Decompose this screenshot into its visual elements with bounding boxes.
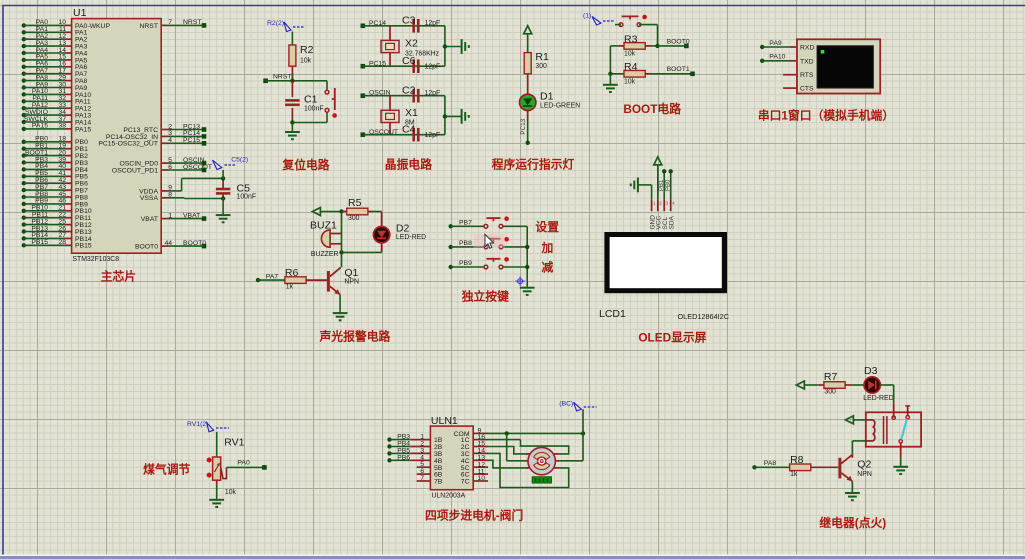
svg-text:PB8: PB8 xyxy=(459,240,472,247)
chip U1 pin 1 VBAT xyxy=(141,212,207,223)
node SDA wire PB0 xyxy=(666,169,673,199)
label minus xyxy=(541,260,553,274)
wire R5 junction down to Q1 collector xyxy=(341,212,343,268)
relay switch blade xyxy=(901,419,907,440)
svg-text:煤气调节: 煤气调节 xyxy=(143,463,190,477)
chip U1 pin 15 PA5 / PA5 with wire and node xyxy=(22,54,88,65)
ground below C5 xyxy=(216,199,231,223)
motor stepper body xyxy=(526,447,560,474)
wire D2 to collector junction xyxy=(339,243,381,255)
svg-text:STM32F103C8: STM32F103C8 xyxy=(72,256,119,263)
svg-text:声光报警电路: 声光报警电路 xyxy=(319,330,391,344)
button PB7 xyxy=(484,216,509,228)
svg-text:D3: D3 xyxy=(864,365,878,377)
svg-text:继电器(点火): 继电器(点火) xyxy=(819,516,886,530)
svg-text:4: 4 xyxy=(168,137,172,144)
svg-text:CTS: CTS xyxy=(800,86,814,93)
chip ULN1 pin 16 1C xyxy=(461,434,488,444)
RV1 adjust buttons xyxy=(207,458,212,478)
svg-text:PA15: PA15 xyxy=(32,123,48,130)
relay coil xyxy=(866,416,887,444)
chip U1 pin 20 BOOT1 / PB2 with wire and node xyxy=(22,149,88,160)
wire button PB8 to bus xyxy=(503,246,527,248)
chip U1 pin 18 PB0 / PB0 with wire and node xyxy=(22,136,88,147)
svg-text:R7: R7 xyxy=(824,371,838,383)
cursor highlight xyxy=(474,234,505,248)
ground below Q1 xyxy=(333,312,348,321)
svg-text:100nF: 100nF xyxy=(237,194,257,201)
chip ULN1 pin 11 6C xyxy=(461,468,488,478)
power arrow for R5 xyxy=(312,208,341,216)
wire 1C to motor right-top xyxy=(488,440,569,454)
svg-text:NRST: NRST xyxy=(139,23,158,30)
svg-text:PA0: PA0 xyxy=(237,460,250,467)
power arrow for OLED VCC xyxy=(654,157,662,199)
svg-text:RV1(2): RV1(2) xyxy=(187,421,208,428)
label main chip xyxy=(101,270,136,284)
transistor Q2 NPN xyxy=(838,455,871,482)
svg-text:LCD1: LCD1 xyxy=(599,308,626,320)
svg-text:300: 300 xyxy=(535,63,547,70)
svg-text:C5(2): C5(2) xyxy=(231,157,248,164)
svg-text:38: 38 xyxy=(58,123,66,130)
svg-text:VBAT: VBAT xyxy=(141,216,158,223)
chip U1 pin 25 PB12 / PB12 with wire and node xyxy=(22,218,92,229)
chip ULN1 pin 2 2B PB4 xyxy=(387,441,442,452)
LCD1 OLED body xyxy=(599,232,729,321)
chip U1 pin 12 PA2 / PA2 with wire and node xyxy=(22,33,88,44)
wire R2 to NRST node xyxy=(291,66,293,81)
svg-text:BUZZER: BUZZER xyxy=(311,251,339,258)
svg-text:10k: 10k xyxy=(300,58,312,65)
ground rotated bottom xyxy=(462,109,469,124)
label alarm circuit xyxy=(319,330,391,344)
svg-text:X2: X2 xyxy=(405,38,418,50)
wire R1 to D1 xyxy=(527,74,529,95)
wire relay common to ground xyxy=(900,443,902,466)
chip U1 pin 22 PB11 / PB11 with wire and node xyxy=(22,212,92,223)
transistor Q1 NPN xyxy=(327,267,359,295)
resistor R6 1k xyxy=(285,267,327,291)
svg-text:NRST: NRST xyxy=(273,73,292,80)
ground below RV1 xyxy=(209,499,224,507)
svg-text:C6: C6 xyxy=(402,55,416,67)
potentiometer RV1 10k xyxy=(213,436,245,496)
wire crystal right bus top xyxy=(443,26,462,66)
relay NO pin stub xyxy=(905,406,910,416)
svg-text:3: 3 xyxy=(666,201,669,207)
node OSCIN rail xyxy=(361,90,445,99)
ground below R3 R4 junction xyxy=(603,74,618,92)
chip U1 pin 3 PC14 xyxy=(106,130,206,141)
svg-text:OLED显示屏: OLED显示屏 xyxy=(638,331,706,345)
relay RL1 body xyxy=(866,412,921,446)
svg-text:R4: R4 xyxy=(624,61,638,73)
svg-text:4: 4 xyxy=(672,201,675,207)
svg-text:PA15: PA15 xyxy=(75,126,91,133)
probe R2(2) xyxy=(267,20,305,31)
buttons bus vertical xyxy=(525,226,529,286)
svg-text:PB1: PB1 xyxy=(659,179,665,191)
wire RV1 wiper to PA0 xyxy=(221,460,267,479)
svg-text:R8: R8 xyxy=(790,454,804,466)
wire 3C to motor right-bottom xyxy=(488,453,569,487)
chip U1 pin 31 PA10 / PA10 with wire and node xyxy=(22,88,92,99)
node NRST wire xyxy=(263,73,327,83)
wire probe to boot button xyxy=(615,24,621,26)
svg-text:独立按键: 独立按键 xyxy=(461,290,509,304)
serial terminal P1 body xyxy=(797,39,880,93)
svg-text:12pF: 12pF xyxy=(425,20,441,27)
chip U1 pin 38 PA15 / PA15 with wire and node xyxy=(22,123,92,134)
pin CTS stub xyxy=(783,87,797,89)
label gas adjustment xyxy=(143,463,190,477)
chip U1 pin 27 PB14 / PB14 with wire and node xyxy=(22,232,92,243)
chip ULN1 pin 10 7C xyxy=(461,475,488,485)
svg-text:NPN: NPN xyxy=(857,471,872,478)
svg-text:R6: R6 xyxy=(285,267,299,279)
svg-text:6: 6 xyxy=(168,164,172,171)
chip ULN1 pin 1 1B PB3 xyxy=(387,434,442,445)
label serial window xyxy=(758,109,894,123)
svg-text:100nF: 100nF xyxy=(304,106,324,113)
chip U1 pin 2 PC13 xyxy=(123,123,206,134)
svg-text:C2: C2 xyxy=(402,85,416,97)
svg-text:7C: 7C xyxy=(461,479,470,486)
svg-text:RXD: RXD xyxy=(800,45,814,52)
power arrow for R1 xyxy=(524,26,532,53)
capacitor C1 100nF xyxy=(285,81,323,123)
chip U1 pin 37 SWCLK / PA14 with wire and node xyxy=(22,116,92,127)
svg-text:C1: C1 xyxy=(304,94,318,106)
svg-text:7: 7 xyxy=(168,19,172,26)
chip U1 pin 8 VSSA wire xyxy=(140,192,223,203)
svg-text:NPN: NPN xyxy=(344,279,359,286)
chip ULN1 pin 9 COM xyxy=(454,428,488,438)
chip U1 pin 33 PA12 / PA12 with wire and node xyxy=(22,102,92,113)
svg-text:BOOT1: BOOT1 xyxy=(667,66,690,73)
chip U1 pin 4 PC15 xyxy=(98,137,206,148)
svg-text:(BC): (BC) xyxy=(559,400,573,407)
svg-text:BOOT0: BOOT0 xyxy=(135,244,158,251)
wire button PB7 to bus xyxy=(503,225,527,227)
origin marker crosshair xyxy=(515,276,525,286)
chip ULN1 pin 5 5B xyxy=(417,461,443,472)
chip U1 pin 45 PB8 / PB8 with wire and node xyxy=(22,191,88,202)
capacitor C5 100nF xyxy=(216,176,256,201)
capacitor C4 12pF xyxy=(402,124,440,142)
svg-text:300: 300 xyxy=(348,215,360,222)
wire relay coil to Q2 collector xyxy=(852,441,865,458)
svg-text:R2(2): R2(2) xyxy=(267,20,284,27)
pin RTS stub xyxy=(783,74,797,76)
resistor R3 10k xyxy=(618,33,657,57)
svg-text:PB9: PB9 xyxy=(459,260,472,267)
svg-text:C4: C4 xyxy=(402,124,416,136)
ground rotated for OLED xyxy=(631,178,638,193)
node PA9 wire to RXD xyxy=(760,40,797,49)
svg-text:RTS: RTS xyxy=(800,72,814,79)
label program indicator xyxy=(492,157,575,171)
svg-text:OLED12864I2C: OLED12864I2C xyxy=(677,312,729,321)
wire probe to R2 xyxy=(291,32,293,46)
svg-text:ULN2003A: ULN2003A xyxy=(432,493,466,500)
chip U1 pin 16 PA6 / PA6 with wire and node xyxy=(22,61,88,72)
chip U1 pin 46 PB9 / PB9 with wire and node xyxy=(22,198,88,209)
chip ULN1 pin 15 2C xyxy=(461,441,488,451)
node R5 junction xyxy=(339,209,343,213)
probe (BC) xyxy=(559,400,596,411)
svg-text:复位电路: 复位电路 xyxy=(281,158,329,172)
mouse cursor xyxy=(485,234,494,248)
svg-text:X1: X1 xyxy=(405,107,418,119)
node SCL wire PB1 xyxy=(659,169,666,199)
chip ULN1 pin 4 4B PB6 xyxy=(387,454,442,465)
chip U1 STM32F103C8 body xyxy=(72,7,162,263)
power arrow for relay coil xyxy=(845,416,865,424)
label reset circuit xyxy=(281,158,329,172)
node PA8 xyxy=(752,460,789,470)
label OLED display xyxy=(638,331,706,345)
svg-text:10: 10 xyxy=(478,475,486,482)
power arrow for R7 xyxy=(796,381,818,389)
svg-text:12pF: 12pF xyxy=(425,63,441,70)
wire button to BOOT0 node xyxy=(639,25,658,46)
node PC14 rail xyxy=(361,20,445,28)
node OSCOUT rail xyxy=(361,129,445,137)
node PA7 xyxy=(256,274,285,283)
capacitor C3 12pF xyxy=(402,15,440,33)
svg-text:10k: 10k xyxy=(225,489,237,496)
button reset (vertical) xyxy=(325,88,337,118)
svg-text:28: 28 xyxy=(58,239,66,246)
buzzer BUZ1 xyxy=(310,220,342,258)
ground below C1 xyxy=(285,123,300,140)
label set xyxy=(535,220,559,234)
chip U1 pin 39 PB3 / PB3 with wire and node xyxy=(22,156,88,167)
wire COM net xyxy=(488,409,585,461)
button BOOT xyxy=(619,15,647,27)
label BOOT circuit xyxy=(623,102,681,116)
svg-text:PC13: PC13 xyxy=(520,118,527,134)
label relay ignition xyxy=(819,516,886,530)
svg-text:加: 加 xyxy=(540,241,553,255)
svg-text:ULN1: ULN1 xyxy=(431,415,458,427)
chip ULN1 pin 13 4C xyxy=(461,455,488,465)
svg-text:D2: D2 xyxy=(396,223,410,235)
svg-text:44: 44 xyxy=(164,240,172,247)
chip U1 pin 40 PB4 / PB4 with wire and node xyxy=(22,163,88,174)
ground below buttons xyxy=(520,287,535,295)
svg-text:VSSA: VSSA xyxy=(140,195,159,202)
svg-text:10k: 10k xyxy=(624,79,636,86)
wire button PB9 to bus xyxy=(503,266,527,268)
svg-text:(1): (1) xyxy=(583,13,591,20)
svg-text:RV1: RV1 xyxy=(224,436,244,448)
svg-text:BOOT0: BOOT0 xyxy=(667,38,690,45)
LED D3 LED-RED xyxy=(863,365,893,402)
svg-text:1: 1 xyxy=(168,212,172,219)
wire R7 to D3 xyxy=(851,384,864,386)
chip U1 pin 26 PB13 / PB13 with wire and node xyxy=(22,225,92,236)
chip U1 pin 32 PA11 / PA11 with wire and node xyxy=(22,95,91,106)
wire crystal right bus bottom xyxy=(443,96,462,135)
svg-text:PA8: PA8 xyxy=(764,460,777,467)
label independent buttons xyxy=(461,290,509,304)
probe RV1(2) xyxy=(187,421,229,432)
svg-text:12pF: 12pF xyxy=(425,90,441,97)
svg-text:OSCOUT_PD1: OSCOUT_PD1 xyxy=(112,167,158,174)
wire D1 to PC13 node xyxy=(520,111,530,145)
wire probe to RV1 xyxy=(216,432,218,456)
node PB9 wire xyxy=(449,260,485,269)
label stepper motor valve xyxy=(425,508,523,522)
chip U1 pin 11 PA1 / PA1 with wire and node xyxy=(22,26,88,37)
svg-text:1: 1 xyxy=(653,201,656,207)
probe C5(2) xyxy=(212,157,248,179)
svg-text:PC15: PC15 xyxy=(183,137,200,144)
chip U1 pin 21 PB10 / PB10 with wire and node xyxy=(22,205,92,216)
svg-text:PA10: PA10 xyxy=(769,54,785,61)
svg-text:R5: R5 xyxy=(348,197,362,209)
label crystal circuit xyxy=(385,158,432,172)
chip U1 pin 28 PB15 / PB15 with wire and node xyxy=(22,239,92,250)
capacitor C6 12pF xyxy=(402,55,440,73)
svg-text:8: 8 xyxy=(168,192,172,199)
chip U1 pin 30 PA9 / PA9 with wire and node xyxy=(22,81,88,92)
svg-text:R1: R1 xyxy=(535,51,549,63)
LED D1 LED-GREEN xyxy=(520,91,581,111)
svg-text:1k: 1k xyxy=(790,471,798,478)
resistor R7 300 xyxy=(818,371,851,395)
LCD1 pins GND VCC SCL SDA xyxy=(649,199,675,229)
chip U1 pin 10 PA0 / PA0-WKUP with wire and node xyxy=(22,19,111,30)
svg-text:12pF: 12pF xyxy=(425,132,441,139)
wire GND to ground xyxy=(638,185,652,199)
svg-text:BOOT电路: BOOT电路 xyxy=(623,102,681,116)
chip ULN1 pin 12 5C xyxy=(461,461,488,471)
svg-text:PB15: PB15 xyxy=(75,243,92,250)
svg-text:U1: U1 xyxy=(73,7,87,19)
svg-text:PB7: PB7 xyxy=(459,220,472,227)
svg-text:1k: 1k xyxy=(286,284,294,291)
chip U1 pin 13 PA3 / PA3 with wire and node xyxy=(22,40,88,51)
svg-text:D1: D1 xyxy=(540,91,554,103)
wire 2C to motor left-top xyxy=(488,447,528,454)
chip U1 pin 44 BOOT0 xyxy=(135,240,206,251)
svg-text:设置: 设置 xyxy=(535,220,559,234)
node PB8 wire xyxy=(449,240,485,249)
chip ULN1 pin 7 7B xyxy=(417,475,443,486)
chip U1 pin 17 PA7 / PA7 with wire and node xyxy=(22,68,88,79)
chip U1 pin 7 NRST xyxy=(139,19,206,30)
resistor R5 300 xyxy=(342,197,374,222)
wire COM to motor left-middle xyxy=(507,433,528,460)
svg-text:R3: R3 xyxy=(624,33,638,45)
chip U1 pin 34 SWDIO / PA13 with wire and node xyxy=(22,109,92,120)
svg-text:串口1窗口（模拟手机端）: 串口1窗口（模拟手机端） xyxy=(758,109,894,123)
wire 4C to motor left-bottom xyxy=(488,460,528,468)
svg-text:LED-RED: LED-RED xyxy=(396,234,426,241)
svg-text:OSCOUT: OSCOUT xyxy=(183,164,212,171)
resistor R8 1k xyxy=(790,454,839,478)
node PA10 wire to TXD xyxy=(760,54,797,63)
svg-text:PA7: PA7 xyxy=(266,274,279,281)
svg-text:程序运行指示灯: 程序运行指示灯 xyxy=(492,157,575,171)
button PB9 xyxy=(484,257,509,269)
svg-text:BUZ1: BUZ1 xyxy=(310,220,337,232)
svg-text:四项步进电机-阀门: 四项步进电机-阀门 xyxy=(425,508,523,522)
wire Q1 emitter to ground xyxy=(339,295,341,312)
label plus xyxy=(540,241,553,255)
svg-text:晶振电路: 晶振电路 xyxy=(385,158,432,172)
svg-text:LED-GREEN: LED-GREEN xyxy=(540,103,580,110)
svg-text:SDA: SDA xyxy=(668,215,675,229)
LED D2 LED-RED xyxy=(373,223,426,243)
crystal X1 8M xyxy=(381,96,418,135)
resistor R2 10k xyxy=(289,44,314,66)
svg-text:2: 2 xyxy=(659,201,662,207)
wire D3 to relay coil pin xyxy=(880,385,893,418)
crystal X2 32.768KHz xyxy=(381,26,440,66)
chip U1 pin 14 PA4 / PA4 with wire and node xyxy=(22,47,88,58)
chip ULN1 pin 14 3C xyxy=(461,448,488,458)
svg-text:PC15-OSC32_OUT: PC15-OSC32_OUT xyxy=(98,141,158,148)
svg-text:PA9: PA9 xyxy=(769,40,782,47)
svg-text:R2: R2 xyxy=(300,44,314,56)
capacitor C2 12pF xyxy=(402,85,440,103)
button reset wires xyxy=(326,81,328,123)
svg-text:10k: 10k xyxy=(624,51,636,58)
chip ULN1 ULN2003A body xyxy=(430,415,473,500)
chip ULN1 pin 3 3B PB5 xyxy=(387,447,442,458)
ground rotated top xyxy=(462,39,469,54)
chip U1 pin 43 PB7 / PB7 with wire and node xyxy=(22,184,88,195)
svg-text:PB6: PB6 xyxy=(397,454,410,461)
svg-text:300: 300 xyxy=(824,388,836,395)
svg-text:Q2: Q2 xyxy=(857,458,871,470)
node PC15 rail xyxy=(361,61,445,69)
chip U1 pin 41 PB5 / PB5 with wire and node xyxy=(22,170,88,181)
svg-text:NRST: NRST xyxy=(183,19,202,26)
svg-text:减: 减 xyxy=(541,260,553,274)
chip U1 pin 5 OSCIN xyxy=(119,157,206,168)
svg-text:7: 7 xyxy=(420,475,424,482)
chip U1 pin 29 PA8 / PA8 with wire and node xyxy=(22,74,88,85)
chip U1 pin 42 PB6 / PB6 with wire and node xyxy=(22,177,88,188)
svg-text:PB15: PB15 xyxy=(31,239,48,246)
svg-text:C3: C3 xyxy=(402,15,416,27)
chip U1 pin 9 VDDA wire xyxy=(139,178,223,195)
button PB8 xyxy=(484,237,509,249)
wire R3 left to R4 junction xyxy=(608,46,618,76)
motor angle display xyxy=(532,477,551,483)
resistor R4 10k xyxy=(610,61,692,85)
wire C1 bottom junction xyxy=(290,120,327,124)
node BOOT0 xyxy=(655,38,690,48)
resistor R1 300 xyxy=(524,51,549,74)
svg-text:主芯片: 主芯片 xyxy=(101,270,136,284)
svg-text:LED-RED: LED-RED xyxy=(863,395,893,402)
wire Q2 emitter to ground xyxy=(851,481,853,492)
chip U1 pin 19 PB1 / PB1 with wire and node xyxy=(22,143,88,154)
node BOOT1 xyxy=(667,66,695,76)
relay contact nodes xyxy=(892,416,909,443)
svg-text:7B: 7B xyxy=(434,479,443,486)
wire R5 to D2 xyxy=(373,212,382,227)
svg-text:TXD: TXD xyxy=(800,58,814,65)
ground below relay xyxy=(893,466,908,474)
